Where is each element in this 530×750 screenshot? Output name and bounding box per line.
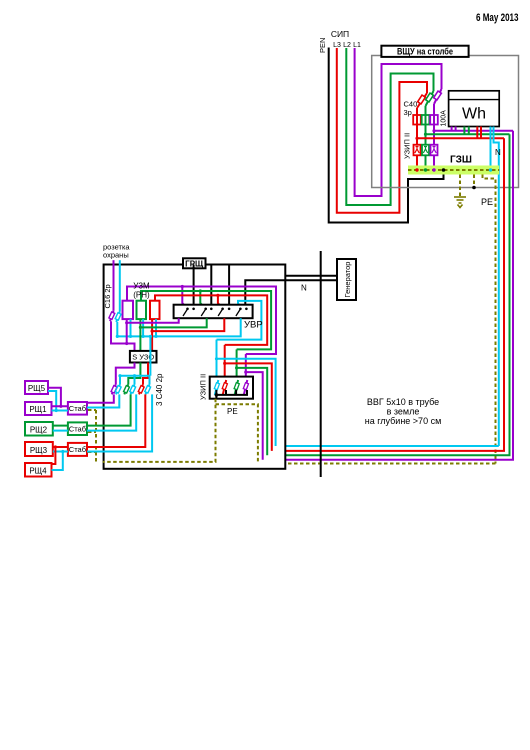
- svg-text:ГЗШ: ГЗШ: [450, 155, 472, 166]
- bus ГЗШ: [408, 166, 499, 175]
- wire N cyan from Wh to bus: [490, 127, 492, 171]
- wire Стаб3 red out: [87, 394, 145, 447]
- wire РЩ4 cyan tap: [52, 452, 63, 471]
- svg-text:PE: PE: [481, 197, 493, 207]
- wire red outgoing right: [272, 138, 504, 451]
- wire PE dashed РЩ riser: [95, 410, 97, 462]
- N bus2 taps: [119, 376, 121, 385]
- svg-text:УВР: УВР: [244, 320, 263, 331]
- wire Wh purple horizontal: [434, 130, 513, 132]
- УЗИП II internal PE bus: [215, 390, 217, 399]
- svg-text:PEN: PEN: [318, 38, 327, 53]
- arrester drop green: [236, 349, 238, 376]
- wire purple outgoing right: [263, 131, 513, 460]
- surge arrester УЗИП red: [414, 145, 421, 156]
- meter Wh box: [449, 91, 500, 127]
- generator box Генератор: [337, 259, 356, 300]
- svg-text:охраны: охраны: [103, 251, 129, 260]
- wire phase column purple: [433, 104, 435, 166]
- УВР contacts: [186, 308, 248, 311]
- wire green cable link: [237, 368, 268, 455]
- wire Стаб1 cyan out: [87, 394, 119, 407]
- wire РЩ3-Стаб3 red: [53, 446, 68, 448]
- svg-text:N: N: [495, 148, 501, 157]
- panel РЩ4: [25, 463, 52, 477]
- wire S УЗО purple out: [116, 363, 135, 385]
- PE dashed outgoing: [483, 175, 496, 464]
- stabilizer Стаб1: [68, 402, 87, 415]
- wire РЩ1-Стаб1 purple: [52, 405, 68, 407]
- wire N cyan outgoing: [494, 127, 499, 447]
- relay УЗМ purple: [123, 301, 134, 319]
- stabilizer Стаб3: [68, 443, 87, 456]
- wire РЩ5 purple: [48, 388, 61, 407]
- wire PE dashed УЗИП left branch: [103, 399, 216, 462]
- wire УВР output green: [140, 318, 206, 327]
- svg-text:PE: PE: [227, 407, 238, 416]
- label box ВЩУ на столбе: [381, 46, 468, 57]
- svg-text:на глубине >70 см: на глубине >70 см: [365, 416, 442, 426]
- breaker С16 purple pole: [110, 311, 114, 321]
- wire УВР output purple: [127, 318, 179, 323]
- breaker 3xC40 red pole: [139, 384, 143, 394]
- relay N taps cyan: [130, 319, 132, 336]
- svg-text:УЗМ: УЗМ: [133, 282, 150, 291]
- svg-text:РЩ2: РЩ2: [30, 426, 48, 435]
- wire cyan cable link: [217, 359, 276, 446]
- wire Стаб3 cyan out: [87, 394, 152, 451]
- wire L1 purple: [355, 48, 442, 196]
- wire L3 red: [337, 48, 427, 213]
- svg-text:РЩ1: РЩ1: [29, 405, 47, 414]
- breaker 3xC40 green pole: [124, 384, 128, 394]
- breaker 3xC40 cyan pole 1: [116, 384, 120, 394]
- ground symbol: [454, 197, 466, 208]
- svg-text:РЩ3: РЩ3: [30, 446, 48, 455]
- generator bus taps: [193, 265, 195, 309]
- relay УЗМ green: [137, 301, 147, 319]
- svg-text:L3: L3: [333, 42, 341, 49]
- wire Wh red horizontal: [417, 137, 504, 139]
- breaker С16 cyan pole: [116, 312, 120, 322]
- wire Стаб2 green out: [87, 394, 131, 425]
- wire generator L: [285, 275, 337, 277]
- svg-text:L1: L1: [353, 42, 361, 49]
- wire green outgoing right: [267, 134, 509, 455]
- arrester drop cyan: [216, 340, 218, 377]
- wire Стаб2 cyan out: [87, 394, 136, 430]
- label box ГРЩ: [183, 258, 206, 268]
- svg-text:3р: 3р: [404, 108, 412, 117]
- wire РЩ1-Стаб1 cyan: [52, 410, 68, 412]
- svg-text:Стаб: Стаб: [69, 445, 86, 454]
- panel РЩ3: [25, 442, 53, 456]
- svg-text:ГРЩ: ГРЩ: [185, 260, 204, 269]
- relay УЗМ red: [150, 301, 160, 319]
- arrester cyan: [215, 380, 219, 395]
- wire N bus cyan: [117, 318, 240, 336]
- svg-text:ВЩУ на столбе: ВЩУ на столбе: [397, 47, 453, 57]
- wire phase column red: [416, 108, 418, 166]
- wire Wh green horizontal: [426, 133, 510, 135]
- enclosure ВЩУ gray box: [372, 56, 519, 188]
- wire relay purple out to S УЗО: [126, 319, 128, 343]
- arrester drop purple: [245, 354, 247, 377]
- wire УВР output red: [152, 318, 224, 331]
- wire розетка охраны purple: [113, 260, 115, 311]
- svg-text:L2: L2: [343, 42, 351, 49]
- PE dashed to ground electrode: [459, 175, 461, 197]
- wire green mains bracket: [141, 291, 271, 349]
- wire cyan outgoing bottom: [276, 445, 499, 447]
- wire purple cable link: [246, 372, 263, 460]
- svg-text:СИП: СИП: [331, 29, 349, 39]
- svg-text:6 May 2013: 6 May 2013: [476, 12, 519, 24]
- svg-text:РЩ4: РЩ4: [29, 467, 47, 476]
- panel РЩ5: [25, 381, 48, 394]
- breaker 3xC40 cyan pole 3: [146, 384, 150, 394]
- svg-text:Стаб: Стаб: [69, 404, 86, 413]
- surge arrester УЗИП purple: [431, 145, 438, 156]
- svg-text:(РН): (РН): [133, 291, 150, 300]
- enclosure ГРЩ box: [104, 265, 286, 469]
- fuse 100A purple: [430, 115, 438, 125]
- arrester green: [235, 380, 239, 395]
- wire РЩ3-Стаб3 cyan: [53, 451, 68, 453]
- breaker C40 3p purple pole: [434, 89, 442, 104]
- wire L2 green: [346, 48, 433, 205]
- wire relay green out to S УЗО: [139, 319, 141, 351]
- svg-text:Генератор: Генератор: [343, 262, 352, 298]
- breaker C40 3p green pole: [426, 91, 434, 106]
- wire С16 cyan to N bus: [116, 322, 118, 336]
- arrester purple: [244, 380, 248, 395]
- wire С16 purple to S УЗО: [111, 321, 135, 351]
- svg-text:Wh: Wh: [462, 106, 486, 123]
- wire РЩ5 cyan: [48, 391, 56, 411]
- wire PE dashed УЗИП right branch: [216, 404, 258, 463]
- wire purple mains bracket: [127, 287, 276, 355]
- wire red cable link: [225, 363, 272, 451]
- arrester red: [223, 380, 227, 395]
- svg-text:ВВГ 5х10 в трубе: ВВГ 5х10 в трубе: [367, 397, 439, 407]
- transfer switch УВР box: [174, 305, 253, 319]
- svg-text:N: N: [301, 284, 307, 293]
- wire Стаб1 purple out: [87, 394, 114, 402]
- surge arrester УЗИП green: [422, 145, 429, 156]
- breaker 3xC40 cyan pole 2: [131, 384, 135, 394]
- wire PE dashed bottom: [258, 463, 496, 465]
- stabilizer Стаб2: [68, 422, 87, 435]
- svg-text:УЗИП II: УЗИП II: [403, 133, 412, 159]
- fuse 100A red: [413, 115, 421, 125]
- svg-text:100А: 100А: [441, 110, 448, 127]
- wire розетка охраны cyan: [119, 260, 121, 311]
- wire cyan N bracket: [217, 301, 262, 340]
- PE dashed to enclosure: [473, 175, 475, 188]
- wire red mains bracket: [155, 295, 267, 345]
- wire generator N: [245, 280, 337, 309]
- wire РЩ2-Стаб2 cyan: [53, 430, 68, 432]
- surge box УЗИП II: [210, 377, 253, 399]
- panel РЩ1: [25, 402, 52, 415]
- boundary line: [320, 251, 322, 477]
- bus junction dots: [415, 168, 418, 171]
- svg-text:Стаб: Стаб: [69, 425, 86, 434]
- wire S УЗО green out: [128, 363, 140, 385]
- wire N bus2 cyan: [149, 336, 151, 375]
- fuse 100A green: [422, 115, 430, 125]
- panel РЩ2: [25, 422, 53, 436]
- arrester drop red: [224, 345, 226, 377]
- svg-text:РЩ5: РЩ5: [28, 384, 46, 393]
- breaker C40 3p red pole: [417, 93, 427, 108]
- wire S УЗО red out: [143, 363, 148, 385]
- svg-text:С16 2р: С16 2р: [103, 284, 112, 308]
- wire PEN black: [329, 48, 444, 223]
- svg-text:в земле: в земле: [387, 407, 420, 417]
- wire phase column green: [425, 106, 427, 166]
- breaker 3xC40 purple pole: [112, 384, 116, 394]
- wire РЩ4 red tap: [52, 447, 56, 464]
- RCD S УЗО box: [130, 351, 157, 363]
- wire РЩ2-Стаб2 green: [53, 425, 68, 427]
- wire relay red out to S УЗО: [151, 319, 153, 351]
- svg-text:УЗИП II: УЗИП II: [199, 374, 208, 400]
- svg-text:3 С40 2р: 3 С40 2р: [155, 373, 164, 406]
